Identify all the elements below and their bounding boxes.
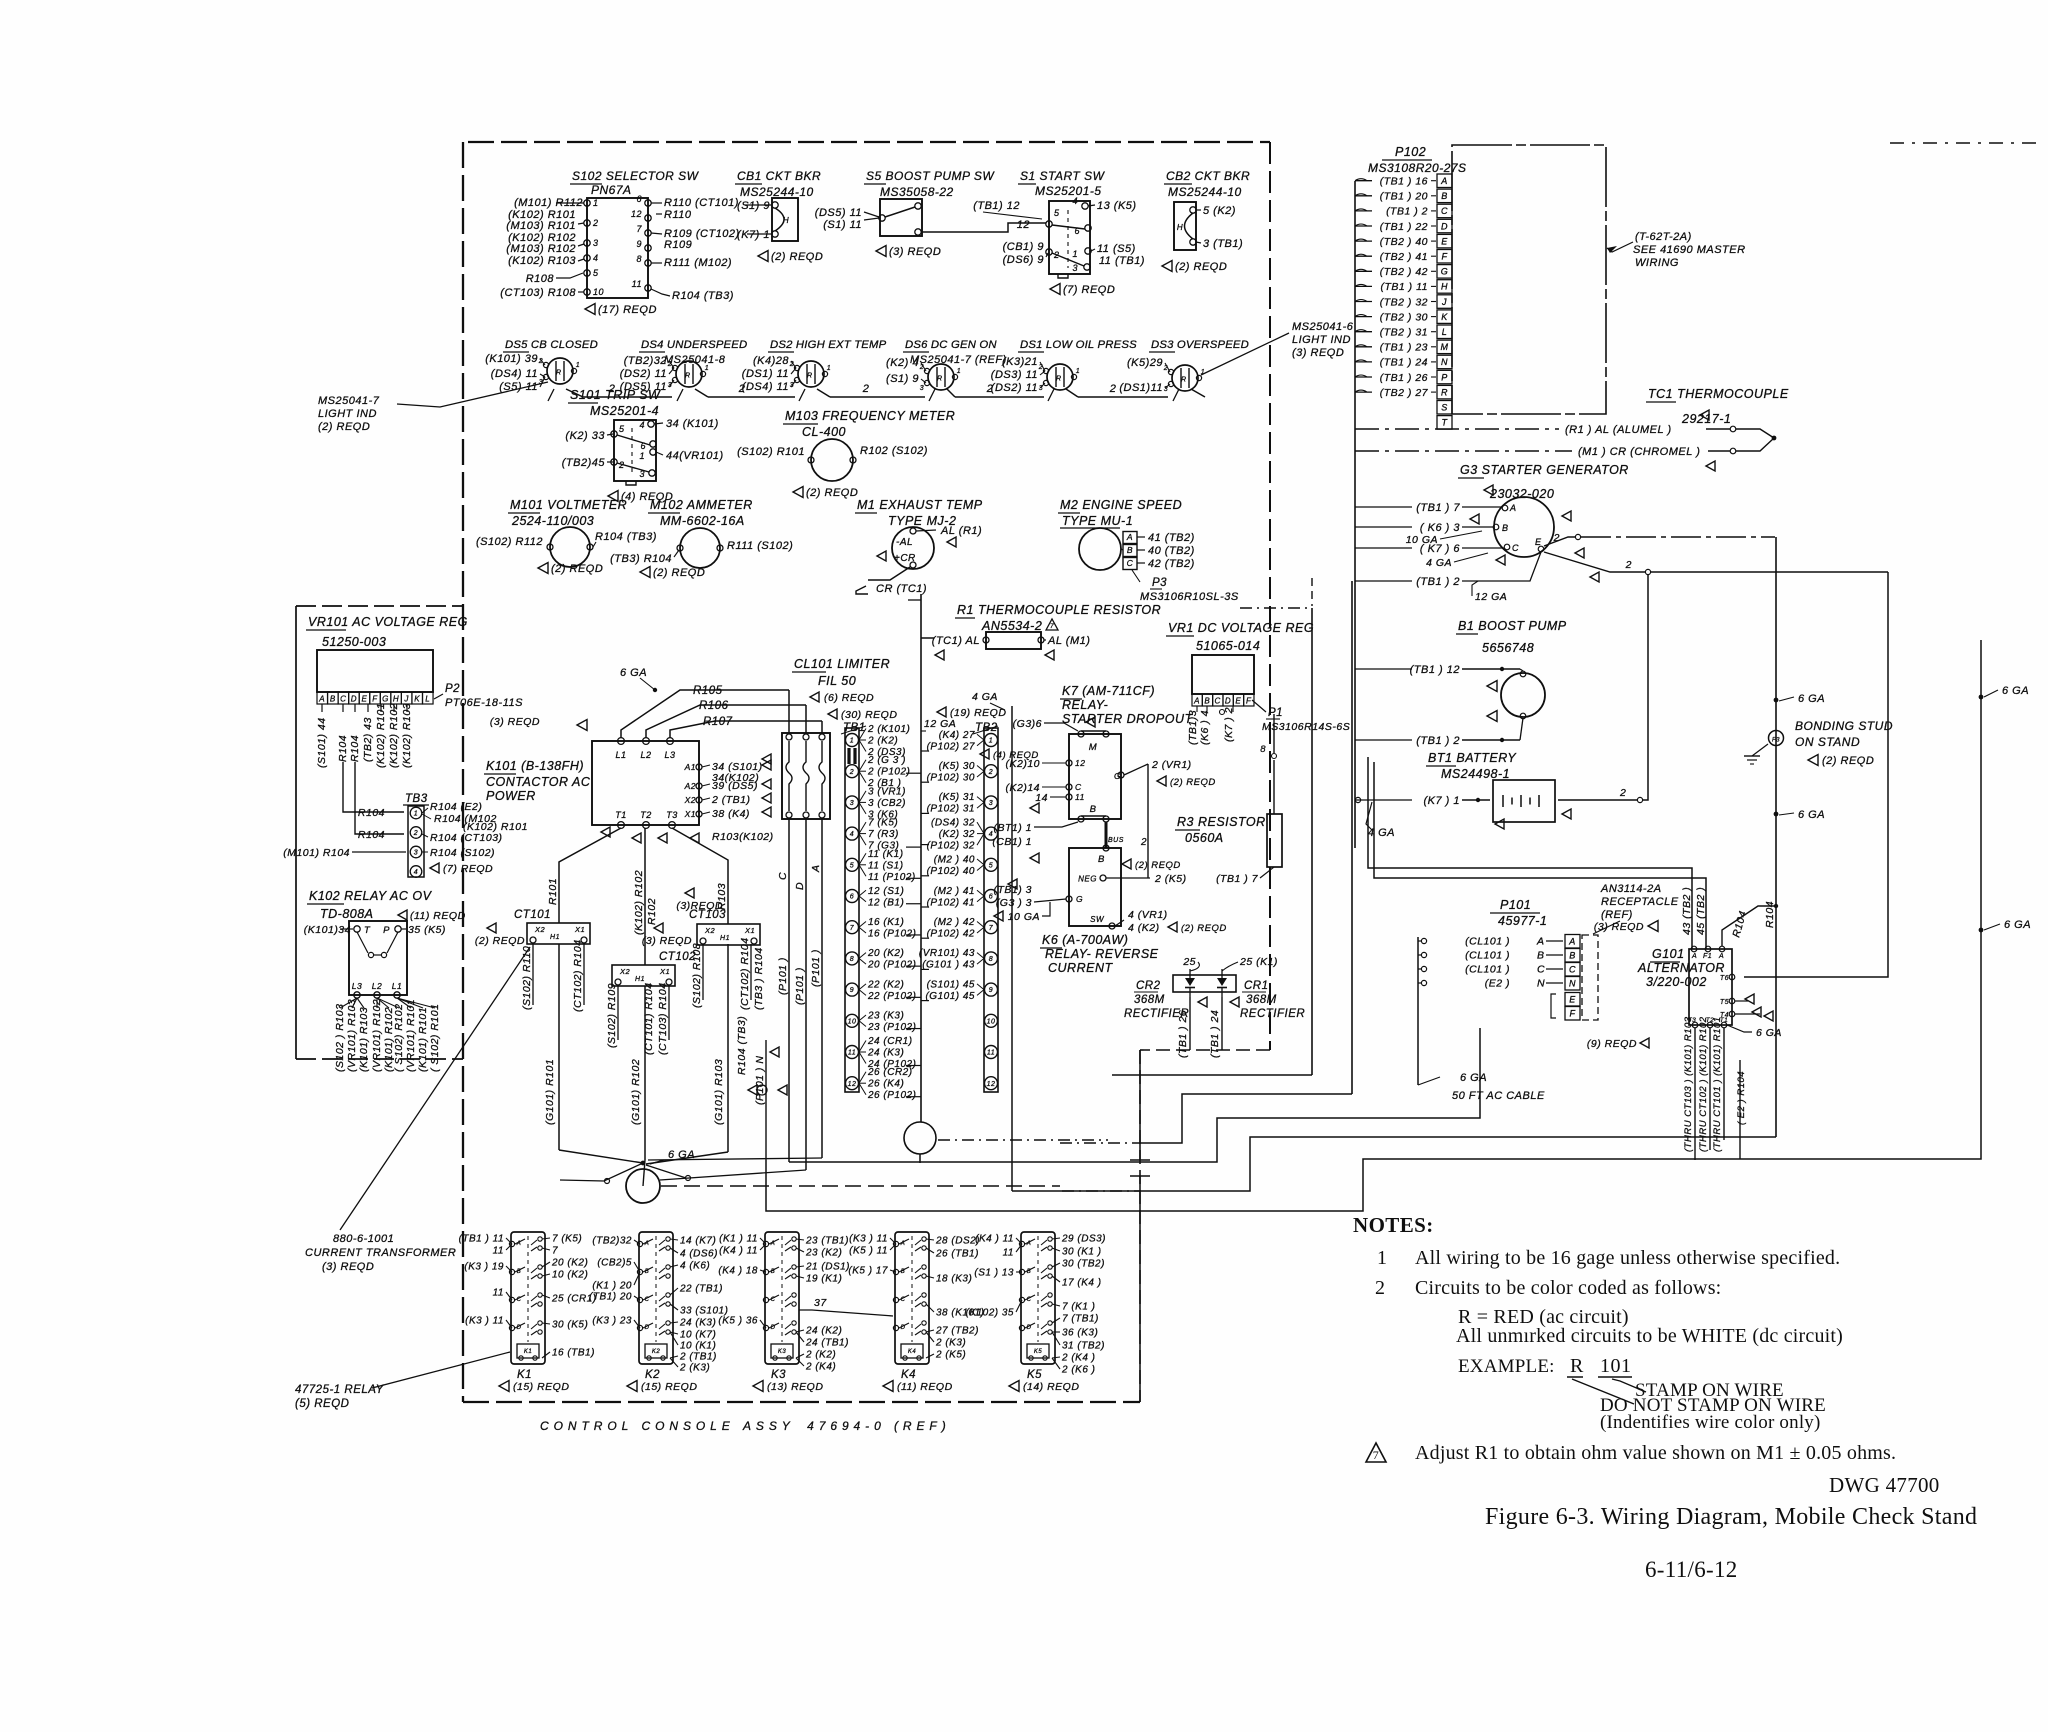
- svg-text:CB1 CKT BKR: CB1 CKT BKR: [737, 169, 821, 183]
- svg-text:M1 EXHAUST TEMP: M1 EXHAUST TEMP: [857, 498, 983, 512]
- svg-text:34(K102): 34(K102): [712, 772, 759, 784]
- svg-text:38 (K4): 38 (K4): [712, 808, 750, 820]
- svg-text:(THRU CT101 ) (K101) R101: (THRU CT101 ) (K101) R101: [1712, 1016, 1723, 1152]
- svg-text:(K7) 1: (K7) 1: [737, 229, 770, 241]
- svg-text:5 (K2): 5 (K2): [1203, 205, 1236, 217]
- svg-text:16 (TB1): 16 (TB1): [552, 1348, 595, 1359]
- svg-text:(TB3) R104: (TB3) R104: [610, 553, 672, 565]
- svg-text:12: 12: [987, 1081, 996, 1088]
- svg-text:12: 12: [1017, 219, 1030, 231]
- svg-text:(TB2 ) 32: (TB2 ) 32: [1380, 296, 1428, 308]
- svg-text:(DS3) 11: (DS3) 11: [991, 369, 1038, 381]
- svg-text:R108: R108: [526, 273, 555, 285]
- svg-text:(3) REQD: (3) REQD: [322, 1261, 374, 1273]
- svg-text:(3) REQD: (3) REQD: [642, 935, 692, 947]
- svg-text:(9) REQD: (9) REQD: [1587, 1038, 1637, 1050]
- svg-text:(K102) R103: (K102) R103: [508, 255, 576, 267]
- svg-text:30 (TB2): 30 (TB2): [1062, 1259, 1105, 1270]
- svg-text:7: 7: [989, 925, 994, 932]
- svg-text:SW: SW: [1090, 915, 1105, 924]
- svg-text:4: 4: [1072, 196, 1078, 206]
- svg-text:2: 2: [1625, 559, 1632, 571]
- svg-text:AN3114-2A: AN3114-2A: [1600, 883, 1662, 895]
- svg-text:R: R: [807, 373, 812, 380]
- svg-text:E: E: [1441, 236, 1448, 246]
- switch S101 trip: [562, 388, 724, 503]
- svg-text:E: E: [1235, 697, 1241, 706]
- svg-text:(G3 ) 3: (G3 ) 3: [996, 897, 1032, 909]
- svg-text:CR1: CR1: [1244, 980, 1269, 992]
- svg-text:(TB1) 20: (TB1) 20: [589, 1292, 632, 1303]
- svg-text:L2: L2: [372, 981, 382, 991]
- svg-text:6 GA: 6 GA: [2002, 685, 2029, 697]
- svg-text:T6: T6: [1720, 975, 1729, 982]
- svg-text:(K102) R101: (K102) R101: [463, 821, 528, 833]
- svg-text:C: C: [901, 1297, 906, 1303]
- meter M1 exhaust temp: [855, 498, 983, 569]
- svg-text:(14) REQD: (14) REQD: [1023, 1381, 1079, 1393]
- svg-text:(TB1 ) 11: (TB1 ) 11: [459, 1234, 504, 1245]
- svg-text:DWG 47700: DWG 47700: [1829, 1473, 1940, 1497]
- svg-text:20 (P102): 20 (P102): [867, 960, 916, 971]
- svg-text:(K3 ) 11: (K3 ) 11: [465, 1316, 504, 1327]
- svg-text:(P101 ): (P101 ): [810, 949, 822, 987]
- svg-text:(K101) R101: (K101) R101: [417, 1007, 429, 1072]
- svg-text:P3: P3: [1152, 577, 1167, 589]
- svg-text:6-11/6-12: 6-11/6-12: [1645, 1557, 1738, 1582]
- svg-text:50 FT AC CABLE: 50 FT AC CABLE: [1452, 1090, 1545, 1102]
- wire column R101: [559, 828, 621, 923]
- svg-text:(TB2)32: (TB2)32: [624, 355, 667, 367]
- svg-text:26 (P102): 26 (P102): [867, 1090, 916, 1101]
- svg-text:(6) REQD: (6) REQD: [824, 692, 874, 704]
- svg-text:26 (TB1): 26 (TB1): [935, 1249, 979, 1260]
- svg-text:(Indentifies wire color only): (Indentifies wire color only): [1600, 1412, 1821, 1433]
- svg-text:6 GA: 6 GA: [1798, 809, 1825, 821]
- svg-text:E: E: [1569, 995, 1576, 1005]
- svg-text:E: E: [1535, 537, 1542, 547]
- svg-text:7: 7: [636, 224, 642, 234]
- svg-text:40 (TB2): 40 (TB2): [1148, 545, 1195, 557]
- svg-text:2: 2: [986, 383, 994, 395]
- svg-text:S102 SELECTOR SW: S102 SELECTOR SW: [572, 169, 700, 183]
- svg-text:2 (TB1): 2 (TB1): [679, 1352, 717, 1363]
- svg-text:P2: P2: [445, 683, 460, 695]
- svg-text:R104 (E2): R104 (E2): [430, 801, 482, 813]
- svg-text:(P102) 32: (P102) 32: [927, 841, 975, 852]
- svg-text:(K102) 35: (K102) 35: [966, 1308, 1014, 1319]
- svg-text:12: 12: [1075, 758, 1085, 768]
- svg-text:K5: K5: [1034, 1349, 1043, 1355]
- svg-text:(TB1 ) 7: (TB1 ) 7: [1416, 502, 1460, 514]
- svg-text:R1 THERMOCOUPLE RESISTOR: R1 THERMOCOUPLE RESISTOR: [957, 603, 1161, 617]
- svg-text:2: 2: [413, 830, 418, 837]
- svg-text:2524-110/003: 2524-110/003: [511, 514, 594, 528]
- svg-text:2 (K3): 2 (K3): [935, 1338, 966, 1349]
- svg-text:27 (TB2): 27 (TB2): [935, 1326, 979, 1337]
- svg-text:G3 STARTER GENERATOR: G3 STARTER GENERATOR: [1460, 463, 1629, 477]
- svg-text:3/220-002: 3/220-002: [1646, 975, 1707, 989]
- svg-text:26 (K4): 26 (K4): [867, 1079, 904, 1090]
- wire P101 N column: [765, 1040, 767, 1160]
- svg-text:MS25244-10: MS25244-10: [1168, 185, 1242, 199]
- svg-text:(G101) 45: (G101) 45: [925, 991, 975, 1002]
- svg-text:22 (K2): 22 (K2): [867, 979, 904, 990]
- svg-text:(G3)6: (G3)6: [1013, 718, 1042, 730]
- svg-text:51065-014: 51065-014: [1196, 639, 1260, 653]
- svg-text:H1: H1: [720, 935, 730, 942]
- svg-text:DS5 CB CLOSED: DS5 CB CLOSED: [505, 339, 598, 351]
- svg-text:(TB1 ) 12: (TB1 ) 12: [1410, 664, 1460, 676]
- indicator lamp DS6: [886, 339, 1007, 392]
- svg-text:B: B: [1090, 804, 1097, 815]
- meter M102 ammeter: [610, 498, 793, 579]
- svg-text:(CB2)5: (CB2)5: [597, 1258, 632, 1269]
- svg-text:(CT103) R104: (CT103) R104: [657, 982, 669, 1055]
- svg-text:2: 2: [1038, 364, 1043, 371]
- svg-text:(S101) 45: (S101) 45: [927, 979, 975, 990]
- svg-text:B: B: [1441, 191, 1448, 201]
- svg-text:24 (CR1): 24 (CR1): [867, 1036, 913, 1047]
- svg-text:37: 37: [814, 1297, 827, 1309]
- svg-text:C: C: [1127, 558, 1134, 568]
- svg-text:R103: R103: [716, 883, 728, 910]
- svg-text:11: 11: [632, 279, 642, 289]
- svg-text:(TB2 ) 41: (TB2 ) 41: [1380, 251, 1428, 263]
- svg-text:BONDING STUD: BONDING STUD: [1795, 719, 1893, 733]
- svg-text:R102 (S102): R102 (S102): [860, 445, 928, 457]
- svg-text:(G101) R103: (G101) R103: [713, 1059, 725, 1125]
- indicator lamp DS5: [485, 339, 598, 393]
- svg-text:44(VR101): 44(VR101): [666, 450, 724, 462]
- svg-text:(TC1) AL: (TC1) AL: [932, 635, 980, 647]
- svg-text:3: 3: [920, 385, 924, 392]
- svg-text:D: D: [771, 1325, 776, 1331]
- svg-text:MS25244-10: MS25244-10: [740, 185, 814, 199]
- svg-text:3: 3: [414, 850, 418, 857]
- svg-text:(S102) R108: (S102) R108: [691, 943, 703, 1008]
- svg-text:(DS5) 11: (DS5) 11: [815, 207, 862, 219]
- svg-text:CL-400: CL-400: [802, 425, 846, 439]
- svg-text:TD-808A: TD-808A: [320, 907, 374, 921]
- svg-text:11 (S5): 11 (S5): [1097, 243, 1136, 255]
- svg-text:T1: T1: [615, 810, 627, 820]
- svg-text:X1: X1: [574, 925, 585, 934]
- svg-text:M101 VOLTMETER: M101 VOLTMETER: [510, 498, 627, 512]
- svg-text:2: 2: [1163, 365, 1168, 372]
- svg-text:X1: X1: [659, 967, 670, 976]
- connector P101: [1418, 898, 1580, 1102]
- svg-text:5: 5: [989, 862, 993, 869]
- svg-text:C: C: [1512, 543, 1519, 553]
- svg-text:(M2 ) 40: (M2 ) 40: [934, 855, 975, 866]
- svg-text:R: R: [1570, 1355, 1584, 1377]
- svg-text:(S102) R112: (S102) R112: [476, 536, 543, 548]
- svg-text:1: 1: [639, 451, 645, 461]
- thermocouple TC1: [1355, 387, 1789, 471]
- svg-text:P101: P101: [1500, 898, 1531, 912]
- indicator lamp DS2: [742, 339, 887, 393]
- svg-text:TYPE MU-1: TYPE MU-1: [1062, 514, 1133, 528]
- svg-text:X1: X1: [744, 926, 755, 935]
- svg-text:(TB2 ) 30: (TB2 ) 30: [1380, 311, 1428, 323]
- svg-text:(7) REQD: (7) REQD: [1063, 284, 1115, 296]
- svg-text:B1 BOOST PUMP: B1 BOOST PUMP: [1458, 619, 1567, 633]
- svg-text:LIGHT IND: LIGHT IND: [318, 408, 377, 420]
- svg-text:7: 7: [1373, 1448, 1380, 1462]
- svg-text:C: C: [1027, 1297, 1032, 1303]
- svg-text:N: N: [1569, 979, 1576, 989]
- svg-text:(K5 ) 11: (K5 ) 11: [849, 1246, 888, 1257]
- svg-text:N: N: [1441, 357, 1448, 367]
- svg-text:(G101) R101: (G101) R101: [544, 1059, 556, 1125]
- svg-text:(P102) 41: (P102) 41: [927, 897, 975, 908]
- svg-text:D: D: [1027, 1325, 1032, 1331]
- svg-text:9: 9: [636, 239, 642, 249]
- relay K102 AC OV: [304, 889, 466, 998]
- svg-text:K4: K4: [908, 1349, 917, 1355]
- svg-text:(CT102) R104: (CT102) R104: [572, 939, 584, 1012]
- svg-text:F3: F3: [1772, 738, 1780, 744]
- svg-text:F: F: [1246, 697, 1252, 706]
- svg-text:A: A: [900, 1241, 906, 1247]
- svg-text:(K101)34: (K101)34: [304, 924, 351, 936]
- svg-text:(M103) R102: (M103) R102: [506, 243, 576, 255]
- svg-text:7: 7: [1050, 623, 1054, 630]
- svg-text:1: 1: [1072, 249, 1078, 259]
- svg-text:H: H: [783, 216, 789, 225]
- terminal strip TB1: [828, 709, 897, 1092]
- svg-text:3 (CB2): 3 (CB2): [868, 798, 906, 809]
- svg-text:WIRING: WIRING: [1635, 257, 1679, 269]
- svg-text:M: M: [1441, 342, 1449, 352]
- svg-text:H1: H1: [550, 934, 560, 941]
- svg-text:D: D: [351, 695, 357, 704]
- svg-text:10 (K1): 10 (K1): [680, 1341, 716, 1352]
- svg-text:2: 2: [738, 383, 746, 395]
- svg-text:16 (P102): 16 (P102): [868, 928, 916, 939]
- svg-text:A: A: [1718, 953, 1724, 960]
- svg-text:(3) REQD: (3) REQD: [1594, 921, 1644, 933]
- svg-text:3 (TB1): 3 (TB1): [1203, 238, 1243, 250]
- svg-text:R111 (M102): R111 (M102): [664, 257, 732, 269]
- svg-text:H: H: [393, 695, 399, 704]
- svg-text:11: 11: [1075, 792, 1085, 802]
- svg-text:(VR101) R102: (VR101) R102: [371, 999, 383, 1072]
- svg-text:(S1) 9: (S1) 9: [737, 200, 770, 212]
- wire B line down: [1744, 572, 1888, 977]
- svg-text:K: K: [1441, 312, 1448, 322]
- svg-text:K102 RELAY AC OV: K102 RELAY AC OV: [309, 889, 433, 903]
- svg-text:R104 (S102): R104 (S102): [430, 847, 495, 859]
- svg-text:R106: R106: [699, 700, 729, 712]
- svg-text:BUS: BUS: [1108, 837, 1124, 844]
- svg-text:2 (TB1): 2 (TB1): [711, 794, 751, 806]
- svg-text:(TB1 ) 20: (TB1 ) 20: [1380, 191, 1428, 203]
- svg-text:26 (CR2): 26 (CR2): [867, 1067, 913, 1078]
- svg-text:24 (K2): 24 (K2): [805, 1326, 842, 1337]
- svg-text:R104: R104: [337, 735, 349, 762]
- svg-text:2 (K2): 2 (K2): [805, 1350, 836, 1361]
- relay K7 starter dropout: [980, 684, 1194, 822]
- svg-text:(2) REQD: (2) REQD: [1175, 261, 1227, 273]
- svg-text:( E2 ) R104: ( E2 ) R104: [1736, 1071, 1747, 1125]
- notes block: [1353, 1213, 1977, 1582]
- svg-text:K1: K1: [517, 1369, 532, 1381]
- svg-text:(K7 ) 1: (K7 ) 1: [1423, 795, 1460, 807]
- svg-text:G: G: [1114, 771, 1121, 781]
- svg-text:4 (K2): 4 (K2): [1128, 922, 1160, 934]
- svg-text:A: A: [1193, 697, 1200, 706]
- svg-text:(S102 ) R103: (S102 ) R103: [334, 1004, 346, 1072]
- svg-text:1: 1: [1377, 1247, 1388, 1269]
- relay K3: [718, 1232, 850, 1393]
- svg-text:(K102) R102: (K102) R102: [633, 870, 645, 935]
- svg-text:4: 4: [850, 831, 854, 838]
- svg-text:(3) REQD: (3) REQD: [490, 716, 540, 728]
- svg-text:(P101 ): (P101 ): [777, 957, 789, 995]
- svg-text:(E2 ): (E2 ): [1485, 978, 1510, 990]
- svg-text:20 (K2): 20 (K2): [551, 1258, 588, 1269]
- svg-text:1: 1: [850, 738, 854, 745]
- svg-text:(K4) 27: (K4) 27: [939, 730, 975, 741]
- svg-text:(13) REQD: (13) REQD: [767, 1381, 823, 1393]
- svg-text:(K3 ) 19: (K3 ) 19: [464, 1262, 504, 1273]
- svg-text:P: P: [383, 925, 390, 936]
- svg-text:11 (P102): 11 (P102): [868, 872, 916, 883]
- svg-text:K: K: [414, 695, 420, 704]
- svg-text:2 (K5): 2 (K5): [1154, 873, 1187, 885]
- svg-text:(5) REQD: (5) REQD: [295, 1398, 349, 1410]
- svg-text:7: 7: [552, 1246, 558, 1257]
- svg-text:C: C: [1075, 782, 1082, 792]
- svg-text:R104 (TB3): R104 (TB3): [672, 290, 734, 302]
- svg-text:9: 9: [850, 987, 854, 994]
- svg-text:(TB3 ) R104: (TB3 ) R104: [753, 947, 765, 1010]
- svg-text:B: B: [645, 1269, 650, 1275]
- leader 880-6-1001 current transformer: [340, 947, 530, 1230]
- svg-text:7: 7: [850, 925, 855, 932]
- wire CT pigtails: [532, 944, 534, 1005]
- svg-text:2: 2: [1619, 787, 1626, 799]
- svg-text:3: 3: [989, 800, 993, 807]
- relay K6 reverse current: [993, 845, 1226, 975]
- svg-text:R104 (CT103): R104 (CT103): [430, 832, 503, 844]
- svg-text:7 (K1 ): 7 (K1 ): [1062, 1302, 1096, 1313]
- svg-text:A: A: [810, 864, 822, 873]
- console frame bottom-right vertical: [1139, 1050, 1141, 1160]
- svg-text:AL (R1): AL (R1): [940, 525, 982, 537]
- svg-text:R: R: [556, 370, 561, 377]
- voltage regulator VR101: [306, 615, 523, 709]
- svg-text:21 (DS1): 21 (DS1): [805, 1262, 850, 1273]
- svg-text:(K6 ) 4: (K6 ) 4: [1199, 710, 1211, 745]
- wire G3 E down branch: [1544, 552, 1645, 572]
- svg-text:23 (TB1): 23 (TB1): [805, 1236, 849, 1247]
- svg-text:(CL101 ): (CL101 ): [1465, 964, 1510, 976]
- svg-text:(M2 ) 42: (M2 ) 42: [934, 917, 975, 928]
- svg-text:7 (TB1): 7 (TB1): [1062, 1314, 1099, 1325]
- svg-text:8: 8: [850, 956, 854, 963]
- svg-text:J: J: [403, 695, 409, 704]
- svg-text:(TB2 ) 31: (TB2 ) 31: [1380, 327, 1428, 339]
- contactor K101 AC power: [484, 716, 771, 828]
- svg-text:K3: K3: [778, 1349, 787, 1355]
- relay K1: [459, 1232, 597, 1393]
- svg-text:51250-003: 51250-003: [322, 635, 386, 649]
- indicator lamp DS1: [991, 339, 1137, 394]
- svg-text:RELAY- REVERSE: RELAY- REVERSE: [1045, 947, 1159, 961]
- svg-text:B: B: [1027, 1269, 1032, 1275]
- svg-text:(TB1)3: (TB1)3: [1187, 710, 1199, 745]
- svg-text:5656748: 5656748: [1482, 641, 1534, 655]
- svg-text:2 (G 3 ): 2 (G 3 ): [867, 755, 906, 766]
- svg-text:(2) REQD: (2) REQD: [475, 935, 525, 947]
- svg-text:NOTES:: NOTES:: [1353, 1213, 1434, 1237]
- svg-text:(BT1) 1: (BT1) 1: [993, 822, 1032, 834]
- ground circle right: [904, 1122, 936, 1154]
- console boundary frame (dashed): [463, 142, 1270, 1402]
- wire K3 37 to K4: [799, 1310, 893, 1316]
- svg-text:(VR101) 43: (VR101) 43: [919, 948, 975, 959]
- svg-text:14: 14: [1035, 792, 1048, 804]
- svg-text:CONTACTOR AC: CONTACTOR AC: [486, 775, 591, 789]
- svg-text:11: 11: [493, 1288, 504, 1299]
- wire S5 to S1: [922, 223, 1046, 232]
- svg-text:K7 (AM-711CF): K7 (AM-711CF): [1062, 684, 1155, 698]
- connector P102: [1355, 145, 1467, 429]
- svg-text:C: C: [517, 1297, 522, 1303]
- svg-text:10: 10: [987, 1018, 996, 1025]
- wire P102 bus: [1354, 181, 1356, 848]
- svg-text:(TB1 ) 24: (TB1 ) 24: [1209, 1010, 1221, 1058]
- svg-text:(2) REQD: (2) REQD: [1135, 860, 1181, 871]
- svg-text:(TB2 ) 27: (TB2 ) 27: [1380, 387, 1429, 399]
- svg-text:12 GA: 12 GA: [1475, 591, 1507, 603]
- svg-text:LIGHT IND: LIGHT IND: [1292, 334, 1351, 346]
- svg-text:(P102) 27: (P102) 27: [927, 741, 975, 752]
- svg-text:ALTERNATOR: ALTERNATOR: [1637, 961, 1725, 975]
- svg-text:T2: T2: [640, 810, 652, 820]
- wires limiter to P101 columns: [788, 818, 790, 868]
- wire 6GA stud line: [1775, 537, 1777, 1137]
- wire column R102: [644, 828, 646, 965]
- svg-text:R104: R104: [358, 829, 385, 841]
- svg-text:(2) REQD: (2) REQD: [1822, 755, 1874, 767]
- relay K4: [848, 1232, 984, 1393]
- svg-text:B: B: [1098, 854, 1105, 865]
- meter M2 engine speed: [1058, 498, 1239, 603]
- svg-text:(P102) 40: (P102) 40: [927, 866, 975, 877]
- svg-text:9: 9: [989, 987, 993, 994]
- svg-text:4: 4: [414, 869, 418, 876]
- wire CR (TC1) from M1: [868, 567, 910, 580]
- svg-text:8: 8: [636, 254, 642, 264]
- svg-text:2: 2: [849, 769, 854, 776]
- bonding stud: [1744, 719, 1893, 767]
- svg-text:(K5 ) 36: (K5 ) 36: [718, 1316, 758, 1327]
- svg-text:2: 2: [862, 383, 870, 395]
- svg-text:(K101) R103: (K101) R103: [358, 1007, 370, 1072]
- svg-text:12 GA: 12 GA: [924, 718, 956, 730]
- svg-text:RECTIFIER: RECTIFIER: [1240, 1008, 1305, 1020]
- svg-text:(K2) 32: (K2) 32: [939, 829, 975, 840]
- svg-text:DS3 OVERSPEED: DS3 OVERSPEED: [1151, 339, 1249, 351]
- svg-text:24 (TB1): 24 (TB1): [805, 1338, 849, 1349]
- svg-text:A: A: [318, 695, 325, 704]
- wire CR bus down: [1311, 608, 1313, 1075]
- svg-text:(2) REQD: (2) REQD: [1181, 923, 1227, 934]
